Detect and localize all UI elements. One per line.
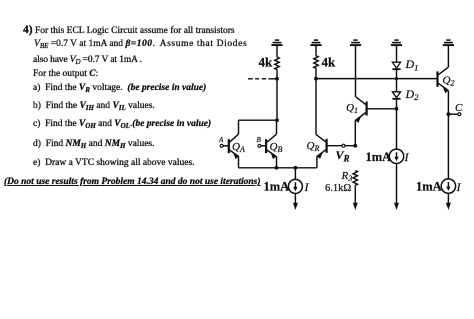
diode D2 xyxy=(392,79,400,149)
current source I tail (1mA) xyxy=(288,168,302,210)
junction dot VR node xyxy=(353,144,357,148)
junction dot QB emitter xyxy=(275,166,279,170)
vcc symbol S1 (above left 4k) xyxy=(271,40,282,57)
junction dot tail current tap xyxy=(294,166,298,170)
wire emitter rail xyxy=(239,167,317,169)
resistor R right 4k xyxy=(314,56,318,69)
current source I right (1mA) xyxy=(441,179,455,210)
svg-text:QR: QR xyxy=(307,140,320,153)
junction dot at left 4k bottom xyxy=(275,77,279,81)
wire rail to Q2 base xyxy=(316,78,438,80)
input terminal A xyxy=(220,144,229,147)
wire collector rail QA/QB xyxy=(239,119,278,121)
vcc symbol S2 (above right 4k) xyxy=(310,40,321,56)
transistor Q2 (output emitter follower) xyxy=(438,67,449,179)
wire right 4k to rail junction, QR collector xyxy=(315,68,317,134)
vcc symbol S5 (above Q2 collector) xyxy=(443,40,454,67)
svg-text:R3: R3 xyxy=(341,170,353,183)
current source I middle (1mA) xyxy=(389,149,403,210)
junction dot rail x D chain xyxy=(395,77,398,80)
svg-text:QA: QA xyxy=(232,141,245,154)
node C: junction dot, lead, open terminal xyxy=(447,112,461,116)
wire from left 4k down to collector rail xyxy=(276,70,278,121)
transistor QR (reference, mirrored: base bar right) xyxy=(316,134,355,167)
svg-text:4k: 4k xyxy=(259,55,274,70)
svg-text:1mA: 1mA xyxy=(366,150,392,164)
svg-text:6.1kΩ: 6.1kΩ xyxy=(325,183,351,194)
junction dot collector rail xyxy=(275,118,279,122)
svg-text:D1: D1 xyxy=(405,57,419,72)
resistor R3 6.1k xyxy=(353,171,357,186)
input terminal B xyxy=(258,144,266,147)
svg-text:1mA: 1mA xyxy=(416,180,442,194)
svg-text:C: C xyxy=(455,102,463,114)
junction dot right 4k bottom xyxy=(314,77,318,81)
svg-text:D2: D2 xyxy=(405,87,420,102)
svg-text:Q2: Q2 xyxy=(443,75,455,88)
VR open terminal on wire xyxy=(342,144,345,147)
svg-text:I: I xyxy=(404,150,410,164)
junction dot D2 bottom / Q1 base xyxy=(395,107,399,111)
dashed wire stub (NOR output going left) xyxy=(248,78,277,80)
svg-text:I: I xyxy=(456,180,462,194)
svg-text:I: I xyxy=(304,180,310,194)
svg-text:1mA: 1mA xyxy=(264,180,290,194)
transistor Q1 (emitter follower, mirrored: base bar right) xyxy=(355,46,396,146)
transistor QB (input B) xyxy=(266,120,276,168)
problem text block xyxy=(23,25,235,37)
resistor R left 4k xyxy=(275,57,279,70)
vcc symbol S3 (above Q1 collector) xyxy=(350,40,361,45)
svg-text:VR: VR xyxy=(336,148,350,164)
vcc symbol S4 (above D1) xyxy=(391,40,402,62)
svg-text:4k: 4k xyxy=(322,55,337,70)
svg-text:A: A xyxy=(218,136,224,144)
svg-text:QB: QB xyxy=(270,141,283,154)
diode D1 xyxy=(392,62,400,78)
svg-text:Q1: Q1 xyxy=(346,102,358,115)
transistor QA (input A) xyxy=(229,120,239,168)
svg-text:B: B xyxy=(257,136,262,144)
wire R3 to VEE arrow xyxy=(353,185,358,210)
